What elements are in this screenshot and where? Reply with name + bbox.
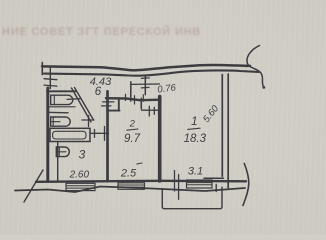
node fraction bar room 2 — [127, 129, 138, 130]
svg-text:3.1: 3.1 — [188, 166, 203, 178]
node sink fixture top of room 3 — [51, 95, 73, 104]
wire hall door dimension line — [131, 83, 160, 85]
node bottom wall tick 1 — [174, 171, 176, 192]
svg-text:5.60: 5.60 — [201, 103, 221, 125]
node balcony door jamb tick — [215, 185, 217, 192]
wire hall partition small vertical — [130, 82, 132, 101]
node tick crossing room2 top wall — [142, 95, 144, 102]
node balcony door window room 1 — [187, 180, 213, 188]
svg-text:2.5: 2.5 — [120, 168, 137, 180]
wire bottom wall inner line — [36, 181, 246, 182]
node bathtub dimension line with ticks — [90, 132, 109, 134]
svg-text:18.3: 18.3 — [184, 133, 207, 145]
wire right exterior wall outer line — [227, 74, 229, 188]
node closet in room 2 corner — [107, 98, 120, 110]
svg-text:3: 3 — [79, 148, 86, 162]
node dash above 5 in 2.5 — [137, 163, 142, 164]
svg-text:2: 2 — [129, 119, 136, 130]
wire bottom wall outer line — [15, 187, 245, 193]
wire wall between room 3 and room 2 — [106, 91, 109, 181]
node lower sink fixture room 3 — [56, 147, 69, 157]
node left dimension tick 2 — [44, 85, 57, 86]
svg-text:9.7: 9.7 — [124, 133, 141, 145]
svg-text:2.60: 2.60 — [69, 170, 90, 181]
wire shelf line in room 3 — [47, 111, 68, 114]
wire hall partition vertical at x145 — [144, 75, 146, 95]
node bottom-right break curve — [243, 164, 249, 206]
node tick on hall vertical 1 — [141, 77, 149, 80]
wire room 2 top wall — [106, 98, 161, 100]
node door jamb below top wall — [140, 98, 142, 108]
wire left exterior wall — [46, 88, 49, 181]
wire riser line along left wall — [57, 142, 59, 181]
node window room 3 — [66, 183, 95, 190]
wire inner wall stub left of right wall — [204, 177, 224, 179]
wire top outer wall line — [42, 65, 250, 70]
node tick crossing room2 top wall at x134 — [134, 96, 136, 104]
node tick on hall vertical 2 — [141, 86, 149, 89]
node fraction bar room 1 — [188, 128, 200, 129]
node top-right break squiggle — [247, 46, 264, 87]
node balcony outline — [162, 187, 222, 209]
node left end tick of top wall — [41, 63, 43, 75]
svg-text:0.76: 0.76 — [157, 82, 177, 95]
wire inner top wall line — [44, 70, 259, 75]
node bottom wall tick 2 — [178, 175, 180, 200]
node left vertical dimension line — [49, 68, 51, 89]
svg-text:1: 1 — [191, 114, 198, 128]
node door swing diagonal room 3 — [72, 88, 92, 122]
wire room 3 top wall — [47, 90, 76, 92]
wire right exterior wall inner line — [221, 75, 223, 177]
node left dimension tick 1 — [44, 79, 57, 80]
node tick crossing room2 top wall at x125 — [125, 94, 127, 100]
svg-text:6: 6 — [95, 86, 102, 98]
node toilet fixture room 3 — [51, 117, 70, 126]
node tick crossing door diagonal — [67, 98, 80, 101]
node wall tick lower — [102, 105, 112, 107]
node door diagonal end ticks — [88, 116, 90, 127]
wire wall between room 2 and room 1 — [158, 97, 162, 182]
node window room 2 — [118, 183, 145, 190]
node wall tick upper — [103, 101, 115, 103]
node door dimension line room 2 with ticks — [142, 109, 158, 111]
paper background with faint red stamp text — [2, 26, 232, 38]
node bottom-left cut diagonal — [24, 170, 43, 202]
node bathtub room 3 — [50, 128, 90, 141]
